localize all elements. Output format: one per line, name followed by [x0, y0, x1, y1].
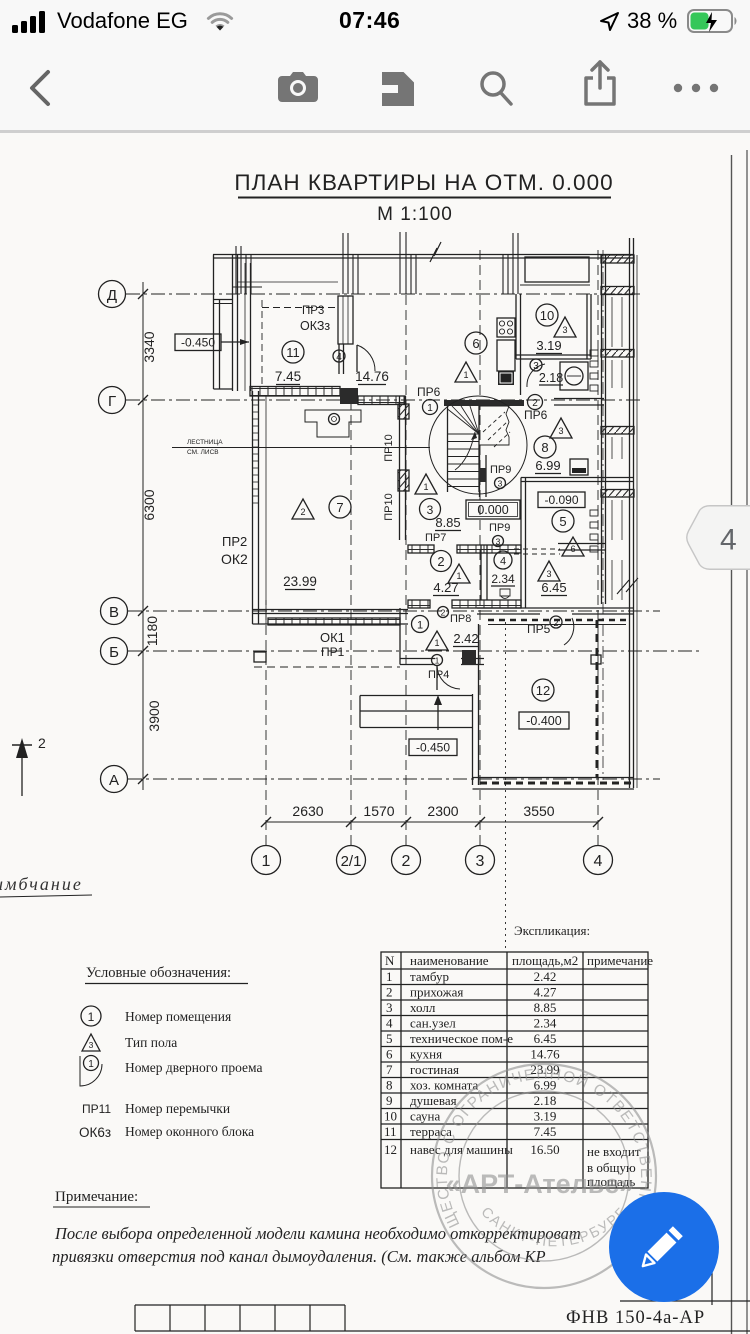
svg-text:1180: 1180	[144, 616, 160, 646]
sauna right wall	[586, 294, 588, 359]
right ladder rung 1	[601, 255, 634, 263]
top band mullion group a	[236, 254, 251, 294]
door circle 4	[333, 350, 345, 362]
more ellipsis	[672, 82, 722, 94]
colonnade axis dash-dot	[602, 250, 604, 780]
svg-text:сауна: сауна	[410, 1109, 440, 1124]
back chevron	[24, 68, 60, 108]
understair black block	[479, 468, 487, 482]
svg-text:10: 10	[540, 308, 554, 323]
room circle 10	[536, 304, 558, 326]
wifi icon	[204, 10, 236, 34]
svg-text:14.76: 14.76	[530, 1047, 560, 1062]
lintel mark ПР10 upper	[398, 404, 409, 419]
svg-text:А: А	[109, 772, 119, 789]
legend door symbol	[84, 1056, 99, 1071]
jamb cluster a	[590, 350, 598, 391]
svg-text:1: 1	[262, 853, 271, 870]
sheet right edge line	[746, 150, 748, 1334]
sauna bottom wall	[516, 354, 591, 356]
carport top wall	[477, 607, 633, 609]
dotted guide line down to table	[505, 622, 507, 948]
svg-text:Номер перемычки: Номер перемычки	[125, 1101, 230, 1116]
legend room number symbol	[81, 1006, 101, 1026]
svg-text:2: 2	[437, 554, 444, 569]
svg-text:1: 1	[88, 1010, 95, 1024]
svg-text:5: 5	[386, 1031, 393, 1046]
svg-text:2: 2	[38, 735, 46, 751]
svg-text:ПР9: ПР9	[490, 464, 511, 476]
svg-text:Номер оконного блока: Номер оконного блока	[125, 1124, 254, 1139]
table texts	[384, 953, 653, 1189]
svg-text:1570: 1570	[363, 803, 394, 819]
tambour corner block	[462, 650, 476, 665]
svg-text:2: 2	[553, 618, 558, 628]
dim ticks left	[138, 289, 148, 784]
svg-text:2.34: 2.34	[491, 572, 515, 586]
room circle 7	[329, 496, 351, 518]
svg-text:4: 4	[720, 524, 737, 557]
svg-text:8: 8	[541, 440, 548, 455]
svg-text:3550: 3550	[523, 803, 554, 819]
title underline	[238, 197, 611, 199]
svg-text:0.000: 0.000	[477, 503, 508, 517]
battery	[687, 9, 739, 35]
room5 top wall	[521, 477, 633, 479]
svg-text:наименование: наименование	[410, 953, 489, 968]
svg-text:N: N	[385, 953, 395, 968]
room circle 6 kitchen	[465, 332, 487, 354]
right ladder rung 2	[601, 287, 634, 295]
stair walk arrow	[455, 432, 475, 470]
carport inner post line	[596, 620, 599, 778]
hall south wall band	[408, 545, 434, 553]
divider wall lower stub	[338, 344, 340, 374]
sauna left wall	[515, 294, 517, 359]
kitchen sink dark	[498, 371, 514, 385]
svg-text:16.50: 16.50	[530, 1142, 559, 1157]
axis А line	[128, 778, 660, 780]
hall upper wall black bar (stair landing)	[444, 400, 524, 406]
floor triangle 1 hall	[415, 474, 437, 494]
svg-text:6: 6	[570, 544, 575, 554]
svg-text:2630: 2630	[292, 803, 323, 819]
svg-text:имбчание: имбчание	[0, 874, 83, 894]
stair steps	[448, 434, 480, 487]
legend floor type symbol	[82, 1034, 100, 1051]
svg-text:ПР5: ПР5	[527, 622, 551, 636]
door arc ПР3	[357, 345, 375, 371]
column bubble 2	[392, 846, 421, 875]
svg-text:прихожая: прихожая	[410, 985, 463, 1000]
share icon	[580, 60, 620, 106]
svg-text:ПР11: ПР11	[82, 1102, 111, 1116]
jamb cluster b	[590, 510, 598, 552]
svg-text:Условные обозначения:: Условные обозначения:	[86, 965, 231, 981]
left porch strip wall	[213, 255, 215, 390]
svg-text:11: 11	[384, 1124, 397, 1139]
svg-text:ПР10: ПР10	[383, 493, 395, 520]
terrace left wall	[232, 255, 234, 392]
wall stubs above top band	[236, 232, 518, 294]
svg-text:3: 3	[89, 1040, 94, 1050]
svg-text:Тип пола: Тип пола	[125, 1035, 177, 1050]
svg-text:3: 3	[558, 426, 563, 436]
FAB edit button	[609, 1192, 719, 1302]
svg-text:4: 4	[386, 1016, 393, 1031]
svg-text:1: 1	[386, 969, 393, 984]
right ladder rung 7	[601, 490, 634, 498]
svg-text:23.99: 23.99	[283, 574, 317, 589]
column bubble 4	[584, 846, 613, 875]
room circle 11	[282, 341, 304, 363]
divider wall window ОКЗз	[338, 296, 353, 344]
carport left wall	[472, 694, 474, 785]
fireplace	[305, 410, 361, 437]
dashed lower edge	[254, 666, 400, 668]
living room left wall	[252, 391, 254, 624]
kitchen counter	[497, 340, 515, 371]
svg-text:-0.090: -0.090	[544, 493, 578, 507]
svg-text:6.45: 6.45	[534, 1031, 557, 1046]
terrace window sill line	[237, 281, 338, 283]
svg-text:В: В	[109, 604, 119, 621]
floor triangle 6 room5	[562, 537, 584, 556]
svg-text:4: 4	[594, 853, 603, 870]
svg-text:12: 12	[536, 683, 550, 698]
table frame	[381, 952, 648, 1188]
svg-text:гостиная: гостиная	[410, 1062, 459, 1077]
svg-text:2.34: 2.34	[534, 1016, 557, 1031]
left wall tick ladder	[253, 405, 259, 503]
stair landing square	[479, 406, 509, 445]
floor triangle 3 room8	[550, 418, 572, 438]
terrace inner dashed edge	[261, 300, 263, 388]
svg-text:7.45: 7.45	[534, 1124, 557, 1139]
column bubble 2/1	[337, 846, 366, 875]
svg-text:2.18: 2.18	[539, 371, 563, 385]
svg-text:9: 9	[386, 1093, 393, 1108]
grid line 2/1	[350, 392, 352, 845]
svg-text:ОК1: ОК1	[320, 630, 345, 645]
svg-text:ЛЕСТНИЦА: ЛЕСТНИЦА	[187, 439, 223, 446]
top wall band upper line	[213, 254, 633, 256]
svg-text:ОК2: ОК2	[221, 551, 248, 567]
svg-text:11: 11	[286, 345, 300, 360]
floor triangle 1 tambour	[426, 631, 448, 650]
wc toilet	[500, 589, 510, 598]
svg-text:2.42: 2.42	[534, 969, 557, 984]
svg-text:3: 3	[427, 503, 434, 517]
understair wall	[479, 455, 481, 497]
door arc ПР5	[564, 618, 574, 645]
living bottom wall OK1	[253, 609, 409, 611]
page number tab 4	[686, 505, 750, 570]
svg-text:2: 2	[300, 507, 305, 517]
svg-text:хоз. комната: хоз. комната	[410, 1078, 479, 1093]
pier block	[254, 652, 266, 662]
tambour south wall	[400, 658, 435, 660]
axis Д line	[126, 293, 640, 295]
svg-text:3.19: 3.19	[534, 1109, 557, 1124]
svg-text:ПЛАН КВАРТИРЫ НА ОТМ. 0.000: ПЛАН КВАРТИРЫ НА ОТМ. 0.000	[234, 170, 613, 195]
svg-text:2/1: 2/1	[341, 853, 362, 870]
wall kitchen bottom	[340, 388, 358, 404]
frame corner bottom right	[711, 1272, 713, 1305]
svg-text:2: 2	[441, 608, 446, 618]
bottom title block grid	[135, 1305, 750, 1331]
svg-text:4.27: 4.27	[534, 985, 557, 1000]
right wall column a	[601, 255, 603, 604]
svg-text:Д: Д	[107, 287, 117, 304]
svg-text:ПР1: ПР1	[321, 645, 345, 659]
carport bottom wall	[473, 777, 635, 779]
svg-text:10: 10	[384, 1109, 397, 1124]
svg-text:1: 1	[88, 1059, 94, 1070]
room circle 1 tambour	[412, 616, 429, 633]
svg-text:6.99: 6.99	[535, 458, 560, 473]
svg-text:1: 1	[435, 656, 440, 666]
door circle 3 shower	[530, 359, 542, 371]
stamp	[432, 1064, 656, 1288]
shower door arc	[527, 364, 545, 387]
sheet right border	[731, 155, 733, 1334]
svg-text:-0.400: -0.400	[526, 714, 561, 728]
lintel mark ПР10 lower	[398, 470, 409, 491]
north arrow	[21, 745, 23, 796]
shower cabin square	[560, 362, 588, 390]
porch second line	[214, 303, 233, 305]
break slash on right wall	[617, 578, 638, 594]
svg-text:тамбур: тамбур	[410, 969, 449, 984]
room circle 8	[534, 436, 556, 458]
door circle 3 hall	[420, 499, 441, 520]
svg-text:8.85: 8.85	[534, 1000, 557, 1015]
svg-text:6: 6	[472, 336, 479, 351]
door circle 2 ПР5	[550, 616, 562, 628]
svg-text:1: 1	[434, 638, 439, 648]
tv symbol	[570, 459, 588, 475]
door circle 2 ПР6	[528, 395, 543, 410]
room5 left wall	[520, 478, 522, 609]
stair circle	[429, 396, 527, 494]
svg-text:2.42: 2.42	[453, 631, 478, 646]
svg-text:СМ. ЛИСВ: СМ. ЛИСВ	[187, 449, 219, 456]
left dimension chain line	[142, 282, 144, 790]
svg-text:«АРТ-Ателье»: «АРТ-Ателье»	[446, 1169, 635, 1199]
right wall column b (exterior)	[629, 238, 631, 788]
svg-text:3: 3	[476, 853, 485, 870]
svg-text:1: 1	[417, 620, 423, 632]
door circle 2 ПР8	[438, 607, 449, 618]
svg-text:4: 4	[500, 556, 506, 568]
svg-text:-0.450: -0.450	[416, 741, 450, 755]
box -0.090	[538, 492, 585, 508]
svg-text:площадь,м2: площадь,м2	[512, 953, 578, 968]
right outer sill line	[636, 255, 638, 788]
svg-text:ПР6: ПР6	[524, 408, 548, 422]
search icon	[476, 68, 516, 108]
svg-text:ОК6з: ОК6з	[79, 1125, 111, 1140]
room circle 5	[552, 510, 574, 532]
column bubble 1	[252, 846, 281, 875]
svg-text:кухня: кухня	[410, 1047, 442, 1062]
svg-text:14.76: 14.76	[355, 369, 389, 384]
svg-text:12: 12	[384, 1142, 397, 1157]
wall segment right of bar	[554, 398, 604, 400]
grid line 3	[479, 250, 481, 845]
kitchen stove	[497, 318, 515, 337]
svg-text:3.19: 3.19	[536, 338, 561, 353]
room circle 2	[431, 551, 452, 572]
floor triangle 3 room5	[538, 561, 560, 581]
svg-text:ПР8: ПР8	[450, 613, 471, 625]
floor triangle 2 living	[292, 499, 314, 519]
camera icon	[276, 70, 320, 106]
svg-text:7: 7	[336, 500, 343, 515]
svg-text:6300: 6300	[141, 489, 157, 520]
entry door arc ПР4	[437, 666, 460, 689]
signal bars	[12, 11, 52, 35]
axis А bubble	[101, 766, 128, 793]
svg-text:ПР2: ПР2	[222, 534, 247, 549]
svg-text:Примечание:: Примечание:	[55, 1189, 138, 1205]
floor triangle 1 kitchen	[455, 362, 477, 382]
status bar	[0, 0, 750, 44]
tambour west wall	[399, 608, 401, 665]
break mark on top line	[430, 242, 441, 262]
column bubble 3	[466, 846, 495, 875]
svg-text:Экспликация:: Экспликация:	[514, 923, 590, 938]
bottom dimension chain	[266, 821, 598, 823]
svg-text:3: 3	[386, 1000, 393, 1015]
stair section line	[172, 447, 430, 449]
grid line 4	[597, 250, 599, 845]
landing dashes	[483, 412, 510, 447]
svg-text:душевая: душевая	[410, 1093, 457, 1108]
svg-text:8.85: 8.85	[435, 515, 460, 530]
svg-text:ОКЗз: ОКЗз	[300, 319, 330, 333]
svg-text:ФНВ 150-4а-АР: ФНВ 150-4а-АР	[566, 1308, 705, 1328]
right ladder rung 5	[601, 427, 634, 435]
svg-text:Номер помещения: Номер помещения	[125, 1009, 231, 1024]
top band mullion group b	[343, 254, 358, 294]
thumbnail icon	[380, 70, 416, 106]
stair wall left pair	[399, 396, 401, 540]
svg-text:7.45: 7.45	[275, 369, 301, 384]
svg-text:ПР3: ПР3	[302, 305, 324, 317]
top wall band lower line	[213, 257, 633, 259]
svg-text:3: 3	[546, 569, 551, 579]
box -0.400	[519, 712, 569, 729]
equipment dashed lines	[514, 549, 560, 554]
box -0.450 lower	[409, 739, 457, 756]
porch steps	[360, 695, 472, 697]
axis Б line	[128, 650, 700, 652]
svg-text:ПР10: ПР10	[383, 434, 395, 461]
wall segment near room5	[558, 543, 605, 545]
axis В bubble	[101, 598, 128, 625]
axis Г line	[126, 399, 640, 401]
svg-text:2: 2	[402, 853, 411, 870]
svg-text:3900: 3900	[146, 700, 162, 731]
wc circle 4	[494, 551, 512, 569]
svg-text:2: 2	[386, 985, 393, 1000]
right window cell marks	[612, 297, 622, 600]
room circle 12	[532, 679, 554, 701]
stair flight verticals	[447, 406, 449, 492]
porch arrow	[437, 698, 439, 730]
svg-text:6.45: 6.45	[541, 580, 566, 595]
floor triangle 3 sauna	[554, 317, 576, 337]
grid line 2	[405, 262, 407, 845]
svg-text:3: 3	[562, 325, 567, 335]
svg-text:1: 1	[423, 482, 428, 492]
svg-text:5: 5	[559, 514, 566, 529]
box -0.450 upper	[175, 334, 221, 351]
svg-text:М 1:100: М 1:100	[377, 204, 453, 225]
terrace bottom wall hatched	[250, 387, 340, 397]
svg-text:ПР9: ПР9	[489, 522, 510, 534]
location arrow	[598, 10, 622, 34]
right ladder rung 3	[601, 350, 634, 358]
svg-text:ПР7: ПР7	[425, 532, 446, 544]
svg-text:-0.450: -0.450	[181, 336, 215, 350]
rooms south wall band	[408, 600, 430, 608]
axis Г bubble	[99, 387, 126, 414]
svg-text:техническое пом-е: техническое пом-е	[410, 1031, 513, 1046]
top band window box	[525, 257, 589, 282]
svg-text:Б: Б	[109, 644, 119, 661]
arrow from box to wall	[221, 341, 249, 343]
svg-text:1: 1	[427, 403, 433, 414]
top band second chord segments	[520, 284, 590, 286]
box 0.000	[466, 500, 520, 519]
svg-text:холл: холл	[410, 1000, 436, 1015]
svg-text:примечание: примечание	[587, 953, 653, 968]
svg-text:привязки отверстия под канал д: привязки отверстия под канал дымоудалени…	[52, 1247, 546, 1266]
terrace inner dashed top	[262, 307, 336, 309]
svg-text:сан.узел: сан.узел	[410, 1016, 456, 1031]
svg-text:7: 7	[386, 1062, 393, 1077]
svg-text:3340: 3340	[141, 331, 157, 362]
svg-text:8: 8	[386, 1078, 393, 1093]
top band mullion group d	[411, 254, 416, 294]
svg-text:Номер дверного проема: Номер дверного проема	[125, 1060, 262, 1075]
door circle 1 ПР4	[432, 655, 443, 666]
svg-text:3: 3	[498, 479, 503, 489]
svg-text:Г: Г	[108, 393, 116, 410]
svg-text:1: 1	[463, 370, 468, 380]
svg-text:4.27: 4.27	[433, 580, 458, 595]
axis Б bubble	[101, 638, 128, 665]
top band mullion group c	[503, 254, 518, 294]
svg-text:2.18: 2.18	[534, 1093, 557, 1108]
floor triangle 1 room2	[448, 564, 470, 583]
grid line 1	[265, 600, 267, 845]
stair winder fan	[448, 406, 480, 434]
axis Д bubble	[99, 281, 126, 308]
svg-text:2300: 2300	[427, 803, 458, 819]
axis В line	[128, 610, 660, 612]
wall between rooms 2 and 4	[480, 545, 482, 600]
svg-text:4: 4	[336, 352, 342, 363]
toolbar	[0, 44, 750, 133]
svg-text:6: 6	[386, 1047, 393, 1062]
svg-text:ПР6: ПР6	[417, 385, 441, 399]
